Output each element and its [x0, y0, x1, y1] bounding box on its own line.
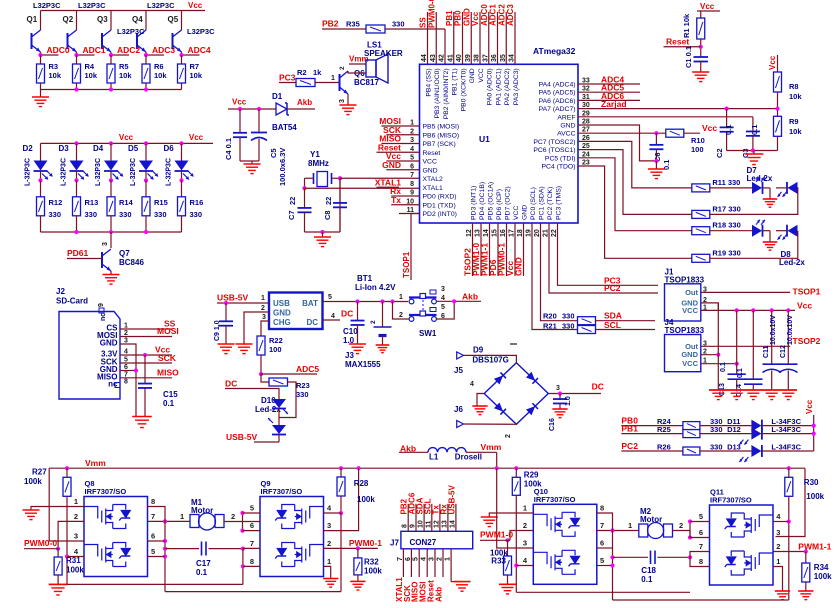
svg-text:C18: C18 [641, 566, 656, 575]
wire pin33 [578, 83, 640, 85]
svg-text:PWM0-0: PWM0-0 [427, 0, 436, 28]
svg-text:100k: 100k [806, 492, 824, 501]
svg-text:9: 9 [98, 303, 105, 307]
svg-text:TSOP1833: TSOP1833 [665, 326, 705, 335]
svg-text:L-32P3C: L-32P3C [130, 158, 137, 186]
capacitor C5 [258, 109, 260, 133]
svg-text:10k: 10k [154, 71, 167, 80]
resistor R2 [296, 79, 315, 87]
svg-text:1: 1 [410, 120, 414, 127]
svg-text:ADC4: ADC4 [188, 45, 211, 55]
wire Q10 pin2 PWM1-0 [510, 531, 533, 541]
wire Vmm to Q9 pin3 [324, 468, 359, 530]
svg-text:Drosell: Drosell [455, 453, 482, 462]
wire J2 pin4 3.3V Vcc [120, 354, 172, 356]
svg-text:MISO: MISO [157, 368, 179, 378]
svg-text:PD61: PD61 [67, 248, 89, 258]
wire R23 to D10 mid [279, 382, 296, 418]
svg-text:ADC5: ADC5 [296, 364, 319, 374]
wire ADC5 [261, 373, 317, 375]
resistor R1 [697, 18, 705, 39]
svg-text:2: 2 [370, 320, 377, 324]
wire D8 return [710, 231, 798, 259]
wire cap ground bar [727, 150, 778, 152]
wire Vcc rail top-left [41, 10, 206, 12]
pin 11 U1 PD2 (INT0) [399, 213, 420, 215]
transistor Q6 BC817 [339, 74, 341, 91]
svg-text:PA6 (ADC6): PA6 (ADC6) [539, 98, 576, 105]
svg-text:7: 7 [600, 521, 604, 530]
svg-text:CHG: CHG [273, 318, 291, 327]
pin 40 U1 PB0 (XCK/T0) [462, 12, 464, 64]
transistor Q2 [76, 11, 78, 31]
svg-text:Vcc: Vcc [702, 123, 717, 133]
wire Vmm to Q8 pin3 [49, 468, 84, 541]
svg-text:0.1: 0.1 [724, 125, 733, 135]
resistor R29 [515, 468, 517, 477]
capacitor C16 [559, 394, 561, 400]
LED D3 [76, 143, 78, 160]
svg-text:100k: 100k [66, 566, 84, 575]
svg-text:3: 3 [410, 137, 414, 144]
svg-text:TSOP1: TSOP1 [793, 287, 821, 297]
capacitor C2 [726, 109, 728, 128]
svg-text:VCC: VCC [478, 68, 485, 82]
svg-text:PB4 (SS): PB4 (SS) [426, 68, 433, 96]
capacitor C9 [225, 303, 227, 321]
svg-text:3: 3 [262, 314, 266, 321]
resistor R31 [57, 549, 59, 557]
wire L1 to Vmm [466, 451, 497, 453]
wire J1 pin3 TSOP1 [701, 291, 790, 293]
svg-text:SPEAKER: SPEAKER [364, 49, 403, 58]
svg-text:3: 3 [74, 532, 78, 541]
svg-text:CON27: CON27 [410, 538, 437, 547]
svg-text:PD1 (TXD): PD1 (TXD) [423, 202, 456, 209]
wire C7 C8 join [305, 231, 341, 233]
svg-text:11: 11 [425, 520, 432, 528]
svg-text:R9: R9 [789, 117, 799, 126]
svg-text:8: 8 [402, 524, 409, 528]
wire LED to Vcc [762, 425, 813, 427]
ground [648, 168, 665, 170]
resistor R21 [578, 326, 596, 334]
pin 10 J7 [423, 504, 425, 532]
svg-text:ATmega32: ATmega32 [533, 46, 576, 56]
svg-text:330: 330 [154, 210, 167, 219]
svg-text:4: 4 [470, 381, 474, 388]
svg-text:PA5 (ADC5): PA5 (ADC5) [539, 90, 576, 97]
svg-text:42: 42 [439, 54, 446, 62]
svg-text:1: 1 [261, 295, 265, 302]
svg-text:DC: DC [306, 318, 318, 327]
svg-text:Y1: Y1 [310, 150, 320, 159]
svg-text:34: 34 [509, 54, 516, 62]
svg-text:3: 3 [429, 557, 436, 561]
svg-text:IRF7307/SO: IRF7307/SO [85, 487, 127, 496]
svg-text:U1: U1 [479, 134, 490, 144]
svg-text:BC846: BC846 [119, 258, 144, 267]
node ADC3 / wire [145, 52, 147, 55]
svg-text:5: 5 [441, 304, 445, 311]
svg-text:2: 2 [437, 557, 444, 561]
svg-text:GND: GND [681, 350, 698, 359]
transistor Q8 IRF7307/SO body [84, 497, 148, 577]
svg-text:Zarjad: Zarjad [601, 99, 627, 109]
svg-text:PB1 (T1): PB1 (T1) [452, 68, 459, 95]
svg-text:PD5 (OC1A): PD5 (OC1A) [488, 182, 495, 220]
wire Q9 pin1 to ground [324, 566, 331, 578]
wire GND pin28 route [578, 125, 656, 161]
wire J6 to bridge [464, 423, 517, 425]
svg-text:DBS107G: DBS107G [472, 356, 508, 365]
svg-text:Vcc: Vcc [797, 301, 812, 311]
svg-text:0.1: 0.1 [163, 399, 175, 408]
transistor Q4 [145, 11, 147, 31]
svg-text:USB-5V: USB-5V [226, 432, 258, 442]
diode D9b [526, 372, 538, 384]
svg-text:2: 2 [339, 66, 346, 70]
svg-text:ADC2: ADC2 [117, 45, 140, 55]
svg-text:PB0 (XCK/T0): PB0 (XCK/T0) [461, 68, 468, 111]
wire M1 node jog [242, 513, 244, 531]
svg-text:VCC: VCC [513, 206, 520, 220]
diode bridge D9 [484, 363, 548, 425]
capacitor C6 [655, 133, 657, 145]
svg-text:R18 330: R18 330 [712, 221, 740, 230]
wire DC to D10 [225, 389, 279, 400]
svg-text:10k: 10k [119, 71, 132, 80]
ground [349, 343, 366, 345]
wire bridge plus DC [548, 393, 601, 395]
svg-text:PB2: PB2 [322, 19, 339, 29]
pin 3 J7 [434, 549, 436, 577]
svg-text:L32P3C: L32P3C [117, 27, 145, 36]
svg-text:GND: GND [462, 8, 471, 26]
capacitor C15 [144, 355, 146, 384]
wire Vmm rail [49, 467, 805, 469]
ground [763, 198, 777, 200]
svg-text:PD7 (OC2): PD7 (OC2) [505, 186, 512, 220]
wire Q11 pin6 [689, 531, 691, 538]
wire R8 to junction [777, 92, 779, 116]
svg-text:AREF: AREF [557, 114, 575, 121]
ground [23, 509, 40, 511]
pin 7 J7 [402, 549, 404, 577]
LED D13 [700, 450, 752, 452]
wire Q9 pin4 [324, 512, 342, 514]
svg-text:GND: GND [382, 160, 401, 170]
svg-text:6: 6 [699, 528, 703, 537]
svg-text:USB-5V: USB-5V [217, 293, 249, 303]
svg-text:R23: R23 [296, 381, 310, 390]
diode D9d [526, 403, 538, 415]
wire XTAL2 net [332, 177, 341, 179]
svg-text:L32P3C: L32P3C [78, 1, 106, 10]
svg-text:R21: R21 [543, 321, 557, 330]
LED D12 [700, 433, 752, 435]
ground [314, 236, 331, 238]
wire Q11 pin2 PWM1-1 [773, 551, 806, 553]
wire lower rail [165, 591, 341, 593]
svg-text:L-32P3C: L-32P3C [166, 158, 173, 186]
svg-text:PC3: PC3 [279, 73, 296, 83]
svg-text:R2: R2 [297, 68, 307, 77]
svg-text:22: 22 [324, 197, 333, 205]
wire pin to R11 [578, 141, 692, 188]
pin 9 J7 [415, 504, 417, 532]
svg-text:2: 2 [261, 305, 265, 312]
wire pin22 PC3 [558, 223, 659, 285]
svg-text:D6: D6 [164, 144, 175, 153]
pin 42 U1 PB2 (AIN0/INT2) [444, 29, 446, 64]
wire LED to Vcc [762, 433, 813, 435]
svg-text:Vcc: Vcc [471, 11, 480, 26]
svg-text:L32P3C: L32P3C [147, 1, 175, 10]
pin 43 U1 PB3 (AIN1/OC0) [435, 12, 437, 64]
svg-text:8: 8 [410, 181, 414, 188]
ground rail lower-left [49, 583, 243, 585]
svg-text:PB2 (AIN0/INT2): PB2 (AIN0/INT2) [443, 68, 450, 119]
wire Q8 pin2 to PWM node [58, 521, 84, 548]
svg-text:3: 3 [556, 385, 560, 392]
ground [376, 344, 390, 346]
ground [552, 408, 567, 410]
svg-text:0.1: 0.1 [750, 125, 759, 135]
svg-text:100k: 100k [357, 495, 375, 504]
svg-text:4: 4 [421, 557, 428, 561]
wire C18 to Q11 pin7 [690, 552, 710, 558]
wire D1 to Akb [287, 108, 315, 110]
pin 14 J7 [455, 504, 457, 532]
svg-text:Li-Ion 4.2V: Li-Ion 4.2V [355, 283, 396, 292]
wire bridge minus to ground [477, 394, 484, 407]
svg-text:PC2: PC2 [621, 441, 638, 451]
svg-text:SCL: SCL [604, 320, 621, 330]
wire Q10 pin4 [516, 565, 533, 567]
svg-text:6: 6 [151, 532, 155, 541]
svg-text:SCK: SCK [158, 353, 177, 363]
svg-text:R1 10k: R1 10k [682, 13, 691, 38]
capacitor C3 [752, 117, 754, 132]
svg-text:R19 330: R19 330 [712, 248, 740, 257]
transistor Q1 [40, 11, 42, 31]
ground [40, 90, 42, 98]
svg-text:8: 8 [699, 557, 703, 566]
capacitor C1 [694, 56, 709, 58]
svg-text:Led-2x: Led-2x [747, 174, 773, 183]
resistor R8 [774, 72, 782, 92]
ground [454, 581, 471, 583]
svg-text:40: 40 [456, 54, 463, 62]
wire Zarjad line to divider [725, 107, 729, 111]
svg-text:R10: R10 [691, 136, 705, 145]
svg-text:C12: C12 [780, 345, 787, 358]
svg-text:PWM1-0: PWM1-0 [480, 530, 513, 540]
svg-text:PC0 (SCL): PC0 (SCL) [530, 187, 537, 220]
svg-text:L-32P3C: L-32P3C [25, 158, 32, 186]
svg-text:Vmm: Vmm [481, 442, 502, 452]
svg-text:2: 2 [679, 521, 683, 530]
svg-text:2: 2 [523, 521, 527, 530]
svg-text:10k: 10k [85, 71, 98, 80]
pin 6 U1 GND [399, 169, 420, 171]
svg-text:330: 330 [49, 210, 62, 219]
svg-text:DC: DC [592, 382, 604, 392]
resistor R34 [805, 552, 807, 564]
wire Q6 collector to speaker [348, 71, 366, 73]
wire J2 pin3 GND [120, 344, 136, 417]
wire R10 to Vcc [684, 132, 700, 134]
svg-text:VCC: VCC [682, 359, 698, 368]
wire J3 BAT to SW1 [323, 301, 409, 303]
wire PB1 [621, 433, 683, 435]
svg-text:Vcc: Vcc [119, 133, 134, 142]
svg-text:1: 1 [399, 294, 403, 301]
svg-text:GND: GND [560, 123, 575, 130]
wire pin to R19 [578, 166, 692, 258]
pin 4 J7 [426, 549, 428, 577]
resistor R11 [692, 184, 710, 192]
capacitor C8 [339, 178, 341, 232]
svg-text:4: 4 [410, 146, 414, 153]
op-amp J3 MAX1555 body [269, 293, 323, 330]
svg-text:TSOP2: TSOP2 [793, 336, 821, 346]
svg-text:R8: R8 [789, 82, 799, 91]
pin 6 J7 [410, 549, 412, 577]
svg-text:5: 5 [413, 557, 420, 561]
svg-text:10k: 10k [789, 92, 802, 101]
LED D6 [181, 143, 183, 160]
svg-text:R32: R32 [364, 558, 379, 567]
svg-text:330: 330 [296, 390, 309, 399]
wire Vmm to speaker [349, 63, 366, 65]
wire pin11 TSOP1 route [411, 214, 420, 281]
svg-text:2: 2 [410, 128, 414, 135]
wire R28 column to lower rail [340, 513, 342, 592]
svg-text:L32P3C: L32P3C [187, 27, 215, 36]
wire Q9 pin8 [243, 565, 260, 567]
svg-text:C5: C5 [269, 148, 278, 158]
wire J2 pin5 SCK [120, 362, 172, 364]
svg-text:Tx: Tx [391, 195, 401, 205]
svg-text:XTAL2: XTAL2 [423, 176, 443, 183]
svg-text:3: 3 [441, 286, 445, 293]
svg-text:R13: R13 [85, 198, 99, 207]
svg-text:Q2: Q2 [63, 15, 74, 24]
wire J4 pin3 TSOP2 [701, 345, 790, 347]
svg-text:1: 1 [445, 557, 452, 561]
speaker LS1 [366, 60, 376, 77]
svg-text:R16: R16 [190, 198, 204, 207]
svg-text:R28: R28 [354, 479, 369, 488]
svg-text:VCC: VCC [423, 159, 437, 166]
svg-text:8: 8 [124, 379, 128, 386]
svg-text:Q7: Q7 [119, 249, 130, 258]
wire J2 pin6 GND [120, 370, 136, 372]
resistor R18 [692, 227, 710, 235]
svg-text:5: 5 [250, 504, 254, 513]
svg-text:PB5 (MOSI): PB5 (MOSI) [423, 124, 460, 131]
pin 37 U1 PA0 (ADC0) [488, 12, 490, 64]
svg-text:R31: R31 [66, 556, 81, 565]
svg-text:R25: R25 [657, 425, 671, 434]
svg-text:5: 5 [328, 294, 332, 301]
svg-text:PC4 (TDO): PC4 (TDO) [542, 164, 576, 171]
pin 5 U1 VCC [399, 160, 420, 162]
wire J2 pin7 MISO [120, 377, 172, 379]
svg-text:MAX1555: MAX1555 [345, 360, 381, 369]
wire D7 return [710, 188, 798, 215]
wire M1 to Q9 [224, 521, 260, 523]
capacitor C10 [357, 302, 359, 321]
svg-text:L-34F3C: L-34F3C [771, 442, 801, 451]
pin 11 J7 [431, 504, 433, 532]
svg-text:PA2 (ADC2): PA2 (ADC2) [504, 68, 511, 105]
svg-text:10: 10 [406, 198, 414, 205]
transistor Q3 [110, 11, 112, 31]
svg-text:C7: C7 [287, 210, 296, 220]
svg-text:7: 7 [699, 542, 703, 551]
svg-text:2: 2 [327, 539, 331, 548]
svg-text:R35: R35 [346, 20, 360, 29]
svg-text:7: 7 [151, 512, 155, 521]
wire Q9 pin2 PWM0-1 [324, 547, 378, 549]
svg-text:37: 37 [482, 54, 489, 62]
wire Q8 pin1 to ground [31, 507, 84, 511]
svg-text:8MHz: 8MHz [308, 159, 329, 168]
svg-text:41: 41 [447, 54, 454, 62]
svg-text:PC2 (TCK): PC2 (TCK) [547, 187, 554, 220]
svg-text:D5: D5 [128, 144, 139, 153]
svg-text:3: 3 [339, 99, 346, 103]
pin 2 U1 PB6 (MISO) [399, 134, 420, 136]
pin 44 U1 PB4 (SS) [427, 12, 429, 64]
wire right lower rails [516, 591, 690, 593]
svg-text:100k: 100k [814, 572, 832, 581]
svg-text:10k: 10k [49, 71, 62, 80]
ground [132, 416, 152, 418]
svg-text:L1: L1 [429, 453, 439, 462]
LED D5 [145, 143, 147, 160]
svg-text:100: 100 [691, 145, 704, 154]
inductor L1 Drosell [428, 448, 466, 453]
wire Q6 emitter to ground [347, 94, 349, 105]
wire PB0 [621, 425, 683, 427]
wire Q11 pin4 [773, 521, 789, 523]
svg-text:100k: 100k [364, 567, 382, 576]
wire Vmm corner to Q11 pin3 [776, 468, 806, 536]
svg-text:ADC0: ADC0 [47, 45, 70, 55]
resistor R9 [774, 116, 782, 136]
svg-text:Vcc: Vcc [189, 133, 204, 142]
wire SW1 pole2 left [393, 302, 410, 320]
wire C6 to ground [655, 161, 657, 169]
wire M2 to Q11 [673, 530, 691, 532]
ground [712, 392, 724, 394]
svg-text:GND: GND [522, 205, 529, 220]
resistor R6 [145, 55, 147, 64]
svg-text:R4: R4 [85, 62, 95, 71]
transistor Q11 IRF7307/SO body [710, 505, 774, 585]
svg-text:Vcc: Vcc [188, 1, 203, 10]
capacitor C7 [304, 188, 306, 208]
svg-text:ADC3: ADC3 [152, 45, 175, 55]
ground [763, 241, 777, 243]
svg-text:3: 3 [327, 521, 331, 530]
pin 41 U1 PB1 (T1) [453, 12, 455, 64]
ground [340, 104, 357, 106]
